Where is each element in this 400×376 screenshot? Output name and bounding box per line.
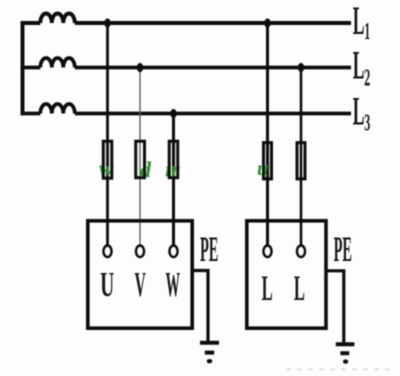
svg-text:V: V bbox=[135, 265, 146, 304]
svg-text:L: L bbox=[353, 88, 365, 133]
node on L2 at right tap bbox=[298, 63, 304, 72]
terminal V bbox=[136, 246, 144, 257]
svg-text:U: U bbox=[100, 266, 114, 304]
svg-text:L: L bbox=[294, 269, 305, 309]
svg-text:PE: PE bbox=[200, 229, 218, 268]
wire tap U from L1 bbox=[106, 23, 109, 247]
wire left bus bbox=[21, 21, 25, 115]
node on L3 at W tap bbox=[170, 109, 176, 118]
ground symbol right: bar 2 bbox=[340, 351, 349, 355]
node on L1 at right tap bbox=[264, 18, 270, 27]
terminal W bbox=[170, 246, 178, 257]
svg-text:3: 3 bbox=[364, 110, 370, 137]
svg-text:W: W bbox=[166, 264, 180, 303]
fuse FU3 bbox=[169, 141, 178, 178]
wire PE stub left box bbox=[192, 271, 208, 343]
svg-text:L: L bbox=[353, 0, 365, 43]
wire tap right L from L2 bbox=[300, 68, 303, 247]
terminal L (left) bbox=[264, 246, 272, 257]
right equipment box bbox=[247, 221, 326, 328]
fuse FU1 bbox=[103, 141, 112, 178]
label L1 bbox=[353, 0, 370, 45]
wire tap V from L2 (thin) bbox=[139, 68, 141, 247]
label L2 bbox=[353, 42, 370, 91]
svg-text:2: 2 bbox=[364, 65, 370, 92]
wire L3 bbox=[21, 112, 351, 116]
fuse FU5 bbox=[297, 143, 305, 179]
fuse FU2 bbox=[136, 141, 145, 178]
svg-text:1: 1 bbox=[364, 19, 370, 46]
inductor coil on L3 bbox=[40, 104, 75, 114]
wire PE stub right box bbox=[326, 271, 344, 344]
svg-text:L: L bbox=[353, 42, 365, 87]
wire tap W from L3 bbox=[172, 114, 175, 247]
inductor coil on L1 bbox=[40, 13, 75, 23]
ground symbol left: dot bbox=[207, 359, 213, 363]
wire L1 bbox=[21, 21, 351, 25]
faint watermark dashes bottom right bbox=[286, 369, 390, 371]
ground symbol right: dot bbox=[343, 359, 348, 363]
wire L2 bbox=[21, 66, 351, 70]
fuse FU4 bbox=[264, 143, 272, 179]
terminal U bbox=[104, 246, 112, 257]
svg-text:PE: PE bbox=[334, 229, 352, 268]
ground symbol left: bar 2 bbox=[205, 351, 214, 355]
wire tap right L from L1 bbox=[266, 23, 269, 247]
left equipment box bbox=[88, 221, 192, 328]
terminal L (right) bbox=[297, 246, 305, 257]
svg-text:L: L bbox=[262, 269, 273, 309]
node on L1 at U tap bbox=[104, 18, 110, 27]
label L3 bbox=[353, 88, 370, 137]
inductor coil on L2 bbox=[40, 58, 75, 68]
ground symbol right: bar 1 bbox=[336, 342, 355, 346]
ground symbol left: bar 1 bbox=[200, 341, 219, 345]
node on L2 at V tap bbox=[137, 63, 143, 72]
